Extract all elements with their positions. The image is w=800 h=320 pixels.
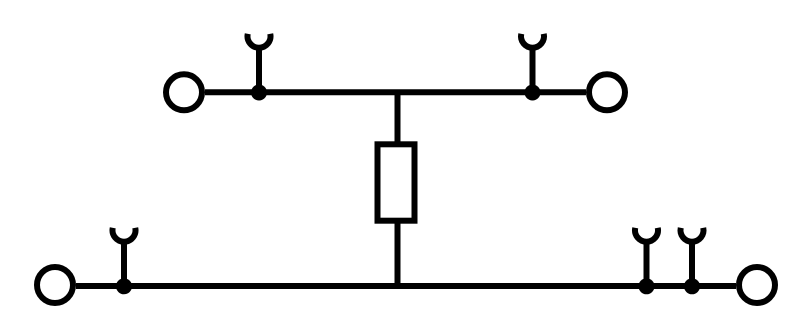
junction dot top-right (525, 85, 541, 101)
socket stem top-right (530, 48, 536, 92)
socket arc top-left (248, 34, 271, 48)
socket stem bottom-right A (644, 242, 650, 286)
terminal circle bottom-right (739, 267, 775, 303)
wire from top rail to resistor (395, 92, 401, 144)
junction dot top-left (251, 85, 267, 101)
junction dot bottom-left (116, 278, 132, 294)
socket arc bottom-right B (681, 228, 704, 242)
terminal circle top-left (166, 74, 202, 110)
resistor body (378, 144, 415, 220)
junction dot bottom-right A (639, 278, 655, 294)
junction dot bottom-right B (684, 278, 700, 294)
socket stem bottom-left (121, 242, 127, 286)
socket arc bottom-left (113, 228, 136, 242)
socket arc bottom-right A (635, 228, 658, 242)
socket stem top-left (256, 48, 262, 92)
wire from resistor to bottom rail (395, 221, 401, 286)
socket stem bottom-right B (689, 242, 695, 286)
socket arc top-right (521, 34, 544, 48)
terminal circle top-right (589, 74, 625, 110)
terminal circle bottom-left (37, 267, 73, 303)
bottom rail wire (76, 283, 736, 289)
top rail wire (205, 89, 586, 95)
